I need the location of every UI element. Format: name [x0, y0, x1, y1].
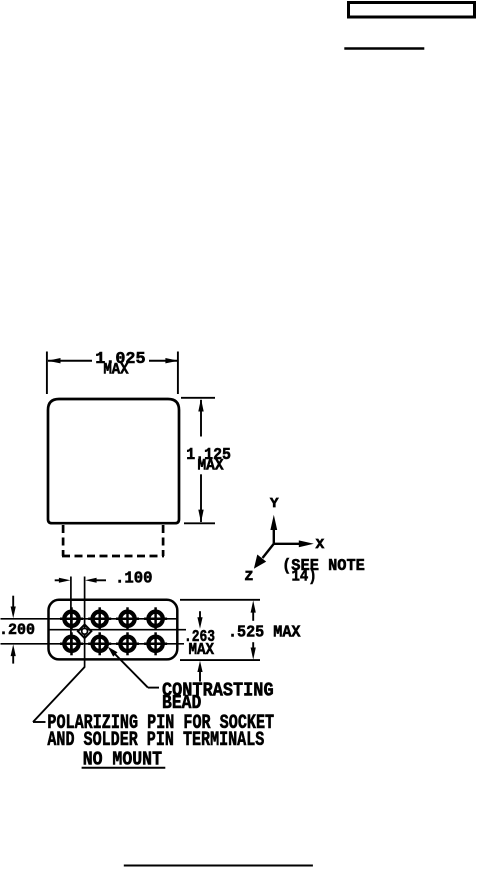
coordinate axes icon: Z axis	[263, 544, 274, 558]
polarizing pin (diamond with bead)	[78, 625, 91, 639]
centerline row 1	[1, 618, 177, 620]
bottom figure caption rule	[124, 865, 313, 867]
dimension .525 MAX: extension lines	[180, 599, 260, 601]
svg-text:X: X	[316, 537, 325, 553]
centerline row 2	[1, 643, 185, 645]
coordinate axes icon: Y axis	[273, 526, 275, 544]
centerline mid (polarizing pin row)	[49, 629, 186, 631]
dimension .200: arrows and text	[12, 596, 14, 608]
dimension .525 MAX: arrows	[252, 611, 254, 621]
dimension 1.125 MAX: extension lines	[181, 397, 215, 399]
svg-text:.200: .200	[0, 621, 35, 639]
dimension 1.025 MAX: dimension line and arrowheads	[48, 360, 92, 362]
dimension .100: dimension line and arrowheads	[55, 579, 62, 581]
centerline / leader column (polarizing pin)	[84, 577, 86, 668]
centerline column 1	[70, 577, 72, 653]
svg-text:14): 14)	[292, 568, 317, 587]
svg-text:MAX: MAX	[103, 360, 129, 378]
terminal view outline (bottom view)	[49, 600, 178, 660]
case outline (top view body)	[48, 399, 179, 523]
horizontal rule under title block	[344, 47, 424, 49]
svg-text:Z: Z	[245, 569, 254, 585]
terminal pins (2 rows x 4 cols)	[60, 607, 167, 655]
dimension 1.025 MAX: extension lines	[46, 352, 48, 395]
svg-text:BEAD: BEAD	[162, 692, 201, 714]
svg-text:.525 MAX: .525 MAX	[228, 623, 301, 642]
svg-text:Y: Y	[270, 496, 279, 512]
title block box (top right)	[349, 3, 475, 18]
leader to contrasting bead	[108, 647, 118, 657]
coordinate axes icon: X axis	[274, 543, 300, 545]
leader to polarizing pin	[33, 667, 85, 722]
svg-text:MAX: MAX	[198, 456, 224, 474]
svg-text:MAX: MAX	[189, 641, 215, 660]
hidden mounting boss (dashed)	[62, 525, 164, 556]
dimension 1.125 MAX: dimension line and arrowheads	[200, 400, 202, 437]
dimension .263 MAX: arrows	[199, 611, 201, 619]
svg-text:.100: .100	[115, 569, 153, 588]
